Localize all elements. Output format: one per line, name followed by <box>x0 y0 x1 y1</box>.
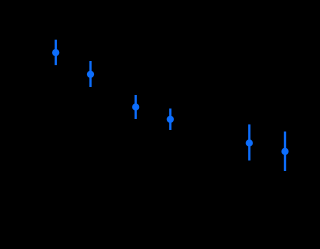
errorbar point 5 <box>246 124 253 160</box>
errorbar point 1 <box>52 40 59 65</box>
errorbar point 6 <box>281 132 288 172</box>
errorbar point 3 <box>132 95 139 119</box>
errorbar point 2 <box>87 61 94 87</box>
errorbar point 4 <box>167 109 174 131</box>
